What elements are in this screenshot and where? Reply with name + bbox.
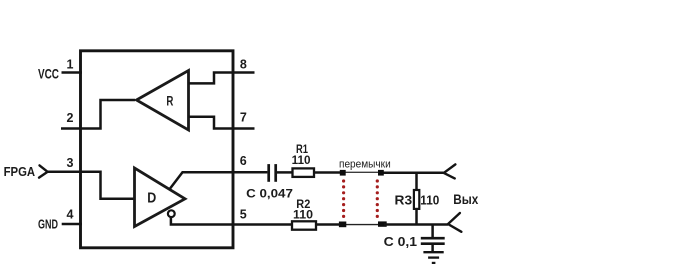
svg-text:C 0,1: C 0,1 — [384, 234, 417, 249]
svg-text:FPGA: FPGA — [4, 164, 36, 179]
svg-text:R: R — [166, 93, 173, 108]
svg-text:110: 110 — [420, 193, 439, 208]
svg-text:6: 6 — [240, 154, 247, 168]
svg-text:D: D — [147, 191, 156, 207]
svg-text:C 0,047: C 0,047 — [246, 187, 293, 201]
svg-text:110: 110 — [293, 207, 313, 221]
svg-text:VCC: VCC — [38, 67, 59, 82]
svg-text:5: 5 — [240, 208, 247, 222]
svg-text:Вых: Вых — [453, 192, 478, 207]
svg-text:4: 4 — [67, 207, 74, 221]
svg-text:2: 2 — [67, 111, 74, 125]
svg-text:7: 7 — [240, 111, 247, 125]
svg-text:перемычки: перемычки — [339, 158, 391, 170]
svg-text:3: 3 — [67, 156, 74, 170]
svg-text:110: 110 — [292, 153, 311, 167]
svg-text:GND: GND — [38, 217, 58, 231]
svg-text:1: 1 — [67, 58, 74, 72]
svg-text:8: 8 — [240, 58, 247, 72]
svg-text:R3: R3 — [395, 193, 413, 208]
